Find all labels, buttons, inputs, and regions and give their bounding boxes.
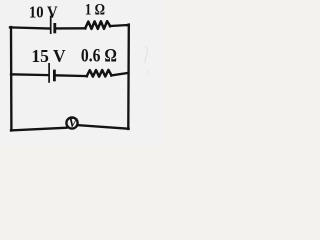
svg-text:1 Ω: 1 Ω (85, 1, 105, 18)
svg-text:0.6 Ω: 0.6 Ω (81, 47, 117, 67)
svg-text:10 V: 10 V (29, 2, 58, 21)
svg-text:15 V: 15 V (31, 46, 65, 66)
